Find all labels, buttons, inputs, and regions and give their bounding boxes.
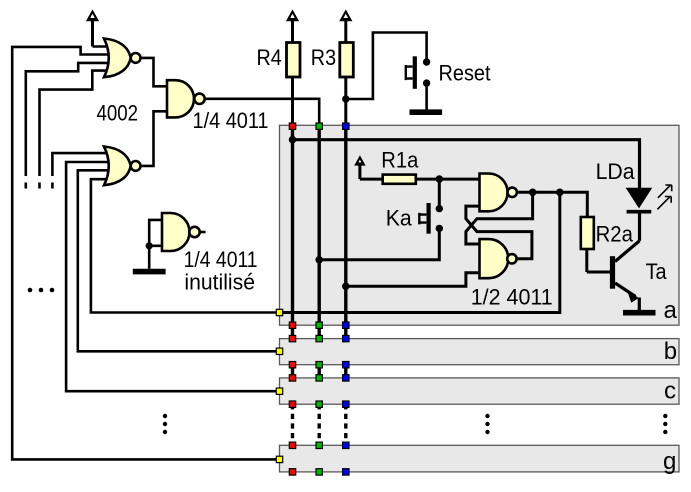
wire latch cross-coupling lower out to upper in — [466, 206, 532, 259]
power supply arrow above R3 — [339, 9, 352, 42]
ellipsis rows d-f left — [163, 414, 167, 434]
ellipsis rows d-f right — [663, 414, 667, 434]
row module b background — [280, 339, 680, 365]
wire NOR2 output to NAND input 2 — [141, 111, 168, 166]
svg-text:a: a — [664, 297, 678, 324]
green connection nodes — [316, 123, 322, 475]
wire Q to yellow output node row a — [282, 192, 560, 312]
svg-text:LDa: LDa — [596, 159, 635, 184]
svg-text:1/2 4011: 1/2 4011 — [471, 285, 553, 310]
resistor R4 — [287, 43, 301, 125]
wire NAND output to green column (row select) — [205, 99, 320, 124]
wire R3 node to Reset button — [346, 33, 427, 100]
green column bus wire — [318, 126, 321, 445]
svg-text:c: c — [664, 377, 676, 404]
red column bus wire — [291, 126, 294, 445]
nand-gate 1/2 4011 lower latch — [480, 239, 517, 278]
svg-text:inutilisé: inutilisé — [184, 270, 255, 295]
wire NOR1 input 2 from net g (left vertical V1) and row g output — [12, 47, 277, 460]
ellipsis rows d-f middle — [485, 414, 489, 434]
junction green column Ka — [315, 256, 323, 264]
transistor Ta — [587, 241, 640, 310]
wire NOR1 output to NAND input 1 — [141, 58, 168, 86]
push-button Reset — [406, 56, 431, 89]
push-button Ka — [419, 203, 443, 234]
ground at Ta — [623, 310, 656, 316]
svg-text:R2a: R2a — [596, 222, 634, 247]
nand-gate 1/2 4011 upper latch — [480, 174, 517, 212]
resistor R3 — [340, 43, 354, 125]
wire Ka to green column — [319, 232, 439, 260]
junction red column LED wire — [289, 136, 297, 144]
nor-gate 4002 lower — [104, 147, 141, 186]
svg-text:Reset: Reset — [439, 60, 492, 85]
power supply arrow VCC top-left — [86, 9, 99, 46]
svg-text:1/4 4011: 1/4 4011 — [193, 108, 269, 133]
red connection nodes — [289, 123, 295, 475]
wire blue column to latch reset input — [346, 273, 480, 287]
resistor R2a — [581, 217, 594, 272]
junction blue column latch — [342, 283, 350, 291]
junction Q feedback — [529, 189, 537, 197]
power supply arrow at R1a — [354, 155, 365, 179]
wire NOR2 input 1 continuation (net d) — [52, 153, 116, 176]
svg-text:g: g — [663, 448, 676, 475]
junction R1a Ka node — [436, 175, 444, 183]
continuation dash net d — [51, 183, 54, 189]
ellipsis more NOR rows — [28, 288, 55, 293]
wire row b output to NOR2 input 3 — [78, 170, 277, 351]
wire latch cross-coupling upper out to lower in — [466, 192, 533, 244]
yellow output node row g — [276, 456, 282, 462]
svg-text:R1a: R1a — [381, 148, 418, 173]
svg-text:1/4 4011: 1/4 4011 — [184, 247, 258, 272]
nand-gate 1/4 4011 — [167, 80, 205, 117]
svg-text:Ta: Ta — [646, 259, 667, 284]
ground at Reset — [410, 87, 443, 113]
blue column bus wire — [344, 126, 347, 445]
wire red column to LED anode — [293, 140, 640, 189]
svg-text:4002: 4002 — [97, 100, 139, 125]
unused nand-gate 1/4 4011 — [149, 213, 205, 251]
junction unused gate inputs — [146, 242, 153, 249]
svg-text:b: b — [664, 338, 677, 365]
svg-text:R3: R3 — [311, 45, 336, 70]
row module c background — [280, 378, 680, 404]
svg-text:R4: R4 — [257, 45, 282, 70]
wire latch output Q to R2a — [517, 192, 588, 217]
ground at unused gate — [133, 246, 166, 272]
nor-gate 4002 upper — [104, 39, 141, 78]
wire row a output to NOR2 input 4 — [91, 179, 277, 312]
blue connection nodes — [343, 123, 349, 475]
yellow output node row b — [276, 348, 282, 354]
yellow output node row c — [276, 388, 282, 394]
wire R1a node to Ka — [438, 179, 441, 205]
svg-text:Ka: Ka — [386, 206, 412, 231]
wire VCC to NOR1 input 1 — [93, 45, 117, 48]
wire R1a to latch set input — [439, 178, 479, 181]
continuation dash net e — [38, 183, 41, 189]
wire NOR1 input 4 continuation (net e) — [40, 71, 117, 176]
continuation dash net f — [24, 183, 27, 189]
row module a background — [280, 125, 680, 325]
led LDa — [627, 185, 672, 241]
yellow output node row a — [276, 309, 282, 315]
power supply arrow above R4 — [286, 9, 299, 42]
junction Q row output — [556, 189, 564, 197]
row module g background — [280, 445, 680, 472]
wire row c output to NOR2 input 2 — [66, 162, 277, 391]
wire NOR1 input 3 continuation (net f) — [26, 63, 116, 176]
resistor R1a — [360, 175, 439, 184]
junction R3 reset — [342, 95, 349, 102]
